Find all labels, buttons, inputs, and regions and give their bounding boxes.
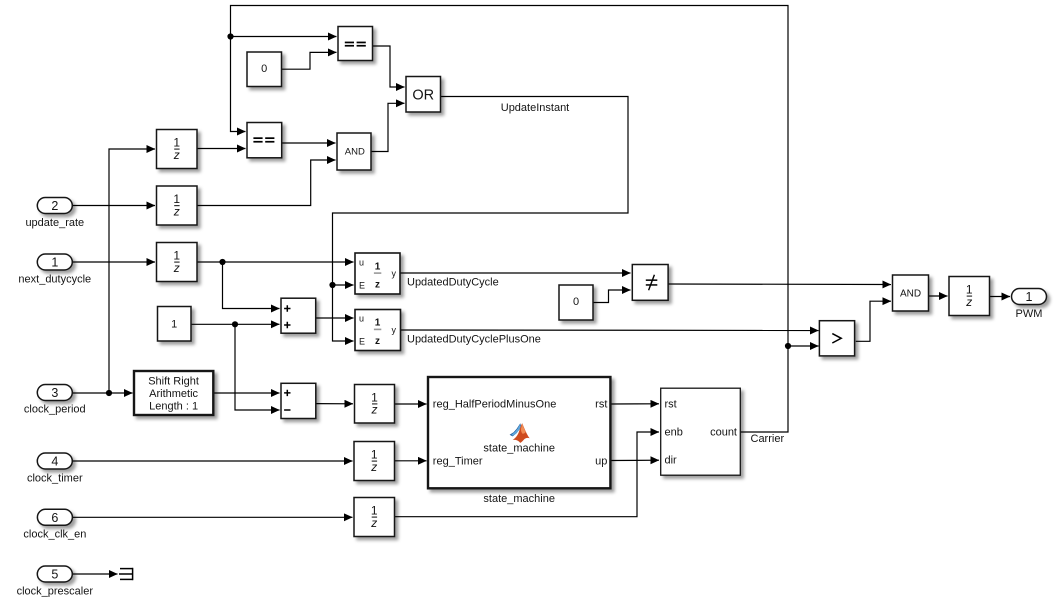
svg-text:Shift Right: Shift Right bbox=[148, 376, 199, 388]
svg-text:u: u bbox=[359, 257, 364, 267]
wire clock_timer port 4 to unit delay UD6 bbox=[72, 460, 352, 462]
input port 6 clock_clk_en bbox=[23, 509, 86, 540]
svg-text:6: 6 bbox=[51, 511, 58, 525]
svg-text:next_dutycycle: next_dutycycle bbox=[18, 273, 91, 285]
svg-text:dir: dir bbox=[665, 455, 678, 467]
wire update_rate port 2 to unit delay UD2 bbox=[72, 205, 155, 207]
svg-text:0: 0 bbox=[573, 296, 579, 308]
MATLAB membrane logo inside state_machine bbox=[510, 423, 530, 443]
subtract block (plus minus) bbox=[281, 383, 316, 418]
signal label UpdateInstant bbox=[501, 102, 570, 114]
node junction on carrier vertical for > branch bbox=[785, 343, 791, 349]
wire unit delay UD4 output to PWM output port bbox=[990, 296, 1010, 298]
svg-text:2: 2 bbox=[51, 199, 58, 213]
relational operator not-equal bbox=[632, 265, 668, 301]
wire UpdateInstant continuation to enable port of enabled delay ED2 bbox=[333, 285, 354, 341]
svg-text:Carrier: Carrier bbox=[751, 433, 785, 445]
wire clock_clk_en port 6 to unit delay UD7 bbox=[72, 516, 352, 518]
svg-text:reg_HalfPeriodMinusOne: reg_HalfPeriodMinusOne bbox=[433, 399, 557, 411]
enabled delay ED2 (UpdatedDutyCyclePlusOne register) bbox=[355, 310, 401, 351]
wire clock_period branch up to unit delay UD1 bbox=[109, 149, 155, 393]
input port 4 clock_timer bbox=[27, 453, 83, 484]
svg-text:AND: AND bbox=[345, 147, 365, 158]
unit delay UD6 (reg_Timer) bbox=[354, 442, 395, 481]
svg-text:reg_Timer: reg_Timer bbox=[433, 455, 483, 467]
svg-text:rst: rst bbox=[665, 398, 677, 410]
unit delay UD1 (clock_period delayed) bbox=[157, 130, 198, 169]
svg-text:z: z bbox=[375, 280, 380, 291]
input port 5 clock_prescaler bbox=[17, 566, 94, 597]
wire constant 1 output to sum block second input bbox=[191, 323, 280, 325]
svg-text:clock_clk_en: clock_clk_en bbox=[23, 529, 86, 541]
svg-text:1: 1 bbox=[375, 261, 381, 272]
logical operator AND (right) bbox=[893, 275, 929, 311]
logical operator OR U-or bbox=[406, 77, 441, 113]
svg-text:PWM: PWM bbox=[1016, 308, 1043, 320]
input port 2 update_rate bbox=[25, 198, 84, 229]
svg-text:OR: OR bbox=[412, 87, 434, 103]
svg-text:1: 1 bbox=[375, 318, 381, 329]
svg-text:clock_period: clock_period bbox=[24, 404, 86, 416]
input port 1 next_dutycycle bbox=[18, 254, 91, 285]
svg-text:up: up bbox=[595, 455, 607, 467]
svg-text:z: z bbox=[371, 403, 378, 417]
unit delay UD4 (PWM output register) bbox=[949, 277, 990, 316]
wire greater-than output to AND2 second input bbox=[856, 301, 891, 341]
wire unit delay UD7 output to counter enb input bbox=[395, 432, 660, 517]
label state_machine (below block) bbox=[483, 493, 555, 505]
node junction on UpdateInstant enable line bbox=[329, 282, 335, 288]
output port 1 PWM bbox=[1012, 289, 1047, 320]
svg-text:state_machine: state_machine bbox=[483, 443, 555, 455]
MATLAB function block state_machine U-sm bbox=[428, 377, 610, 488]
constant 0 (top) bbox=[247, 52, 282, 87]
svg-text:3: 3 bbox=[51, 386, 58, 400]
input port 3 clock_period bbox=[24, 385, 86, 416]
svg-text:Arithmetic: Arithmetic bbox=[149, 388, 198, 400]
signal label UpdatedDutyCycle bbox=[407, 277, 499, 289]
wire AND2 output to unit delay UD4 bbox=[929, 295, 948, 297]
wire == (lower) output to AND first input bbox=[282, 142, 336, 144]
svg-text:state_machine: state_machine bbox=[483, 493, 555, 505]
constant 0 (right) bbox=[559, 285, 593, 320]
terminator (clock_prescaler) bbox=[119, 568, 133, 580]
svg-text:rst: rst bbox=[595, 399, 607, 411]
svg-text:0: 0 bbox=[261, 63, 267, 75]
svg-text:4: 4 bbox=[51, 455, 58, 469]
wire unit delay UD5 output to state_machine reg_HalfPeriodMinusOne input bbox=[395, 403, 427, 405]
svg-text:1: 1 bbox=[1026, 290, 1033, 304]
wire unit delay UD2 output to AND second input bbox=[197, 160, 336, 206]
wire state_machine up output to counter dir input bbox=[610, 459, 659, 461]
counter block U-count bbox=[661, 388, 741, 475]
svg-text:z: z bbox=[370, 460, 377, 474]
wire AND output to OR second input bbox=[371, 103, 405, 151]
signal label Carrier bbox=[751, 433, 785, 445]
unit delay UD2 (update_rate delayed) bbox=[157, 186, 198, 225]
wire constant 0 (top) output to == (top) second input bbox=[282, 52, 337, 69]
svg-text:clock_prescaler: clock_prescaler bbox=[17, 585, 94, 597]
svg-text:y: y bbox=[392, 269, 397, 279]
logical operator AND (left) bbox=[337, 133, 371, 170]
shift right arithmetic block bbox=[134, 371, 213, 415]
node junction on constant 1 output bbox=[232, 321, 238, 327]
wire branch from constant 1 down to subtract block minus input bbox=[235, 324, 280, 410]
sum block (add) bbox=[281, 298, 316, 333]
node junction on clock_period line bbox=[106, 390, 112, 396]
node junction on UD3 output bbox=[219, 259, 225, 265]
svg-text:1: 1 bbox=[171, 319, 177, 331]
svg-text:E: E bbox=[359, 337, 365, 347]
relational operator == (top) bbox=[338, 27, 373, 61]
wire next_dutycycle port 1 to unit delay UD3 bbox=[72, 261, 155, 263]
svg-text:u: u bbox=[359, 314, 364, 324]
svg-text:1: 1 bbox=[51, 256, 58, 270]
svg-text:z: z bbox=[173, 261, 180, 275]
unit delay UD7 (clock_clk_en delayed) bbox=[354, 498, 395, 537]
enabled delay ED1 (UpdatedDutyCycle register) bbox=[355, 253, 400, 294]
wire unit delay UD6 output to state_machine reg_Timer input bbox=[395, 460, 427, 462]
relational operator == (lower) bbox=[247, 123, 282, 158]
svg-text:Length : 1: Length : 1 bbox=[149, 401, 198, 413]
svg-text:AND: AND bbox=[900, 289, 921, 300]
node junction on carrier loop at ==1 branch bbox=[227, 33, 233, 39]
wire UpdateInstant: OR output down to enable ports of both enabled delays bbox=[333, 97, 629, 286]
wire UpdatedDutyCycle: ED1 y output to not-equal first input bbox=[400, 272, 631, 274]
svg-text:update_rate: update_rate bbox=[25, 217, 84, 229]
svg-text:UpdatedDutyCycle: UpdatedDutyCycle bbox=[407, 277, 499, 289]
wire constant 0 (right) output to not-equal second input bbox=[593, 290, 631, 303]
svg-text:z: z bbox=[370, 516, 377, 530]
unit delay UD3 (next_dutycycle delayed) bbox=[157, 243, 198, 282]
svg-text:count: count bbox=[710, 427, 737, 439]
wire unit delay UD3 output to enabled delay ED1 u input bbox=[197, 261, 354, 263]
unit delay UD5 (reg_HalfPeriodMinusOne) bbox=[355, 385, 395, 424]
wire clock_period port 3 to Shift Right block bbox=[72, 392, 132, 394]
svg-text:z: z bbox=[173, 204, 180, 218]
wire subtract output to unit delay UD5 bbox=[316, 403, 353, 405]
wire branch from carrier loop to == (top) first input bbox=[231, 36, 337, 38]
svg-text:clock_timer: clock_timer bbox=[27, 472, 83, 484]
svg-text:z: z bbox=[173, 148, 180, 162]
relational operator greater-than bbox=[819, 321, 854, 356]
svg-text:UpdateInstant: UpdateInstant bbox=[501, 102, 570, 114]
constant 1 bbox=[158, 307, 192, 342]
svg-text:enb: enb bbox=[665, 427, 683, 439]
svg-text:UpdatedDutyCyclePlusOne: UpdatedDutyCyclePlusOne bbox=[407, 334, 541, 346]
wire branch from carrier vertical to greater-than second input bbox=[788, 345, 819, 347]
svg-text:E: E bbox=[359, 280, 365, 290]
wire clock_prescaler port 5 to terminator bbox=[72, 573, 117, 575]
wire unit delay UD1 output to == (lower) second input bbox=[197, 148, 246, 150]
wire == (top) output to OR first input bbox=[373, 46, 405, 87]
wire sum output to enabled delay ED2 u input bbox=[316, 317, 354, 319]
signal label UpdatedDutyCyclePlusOne bbox=[407, 334, 541, 346]
wire Carrier feedback loop: counter count output up and across the top into == blocks bbox=[231, 6, 789, 433]
svg-text:5: 5 bbox=[51, 568, 58, 582]
svg-text:z: z bbox=[375, 336, 380, 347]
svg-text:y: y bbox=[392, 325, 397, 335]
wire branch from UD3 output down to sum block first input bbox=[223, 262, 280, 309]
svg-text:z: z bbox=[965, 295, 972, 309]
wire state_machine rst output to counter rst input bbox=[610, 403, 659, 405]
wire Shift Right output to subtract block plus input bbox=[213, 392, 279, 394]
wire UpdatedDutyCyclePlusOne: ED2 y output to greater-than first input bbox=[401, 329, 819, 332]
wire not-equal output to AND2 first input bbox=[668, 283, 891, 286]
